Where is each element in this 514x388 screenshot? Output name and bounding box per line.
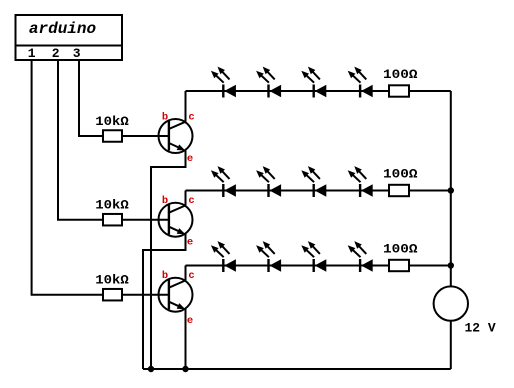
svg-text:10kΩ: 10kΩ [95, 198, 129, 213]
label 100Ω R4 [383, 67, 418, 82]
wire ground rail (bottom) [143, 368, 451, 370]
junction bus/row3 [448, 262, 454, 268]
svg-text:arduino: arduino [29, 20, 97, 38]
svg-text:b: b [162, 112, 168, 124]
label c Q3 [188, 270, 194, 282]
svg-text:10kΩ: 10kΩ [95, 273, 129, 288]
label 100Ω R6 [383, 242, 418, 257]
junction rail/Q1 emitter [148, 366, 154, 372]
wire Q2 collector to LED row 2 [185, 191, 187, 206]
LED D2 [256, 67, 281, 98]
svg-text:b: b [162, 195, 168, 207]
junction rail/Q3 emitter [182, 366, 188, 372]
pin 3 [73, 46, 81, 61]
LED D11 [301, 241, 326, 272]
wire R1 to Q1 base [122, 135, 169, 137]
resistor R6 100Ω (row 3) [389, 260, 409, 271]
voltage source V1 12V [434, 286, 468, 320]
LED D12 [348, 241, 373, 272]
label c Q1 [188, 112, 194, 124]
svg-text:b: b [162, 270, 168, 282]
wire pin 1 to R3 [32, 60, 103, 295]
svg-text:e: e [187, 315, 193, 327]
label b Q1 [162, 112, 168, 124]
wire LED row 1 [186, 90, 451, 92]
LED D9 [211, 241, 236, 272]
resistor R5 100Ω (row 2) [389, 185, 409, 196]
label c Q2 [188, 195, 194, 207]
svg-text:1: 1 [28, 46, 36, 61]
LED D3 [301, 67, 326, 98]
label e Q3 [187, 315, 193, 327]
LED D4 [348, 67, 373, 98]
LED D7 [301, 166, 326, 197]
pin 2 [52, 46, 60, 61]
svg-text:c: c [188, 195, 194, 207]
svg-text:10kΩ: 10kΩ [95, 114, 129, 129]
wire LED row 3 [186, 265, 451, 267]
label arduino [29, 20, 97, 38]
svg-text:2: 2 [52, 46, 60, 61]
svg-text:c: c [188, 112, 194, 124]
wire V1 to ground rail [450, 321, 452, 369]
svg-text:100Ω: 100Ω [383, 242, 418, 257]
svg-text:100Ω: 100Ω [383, 167, 418, 182]
resistor R1 10kΩ (base) [103, 130, 122, 142]
wire R2 to Q2 base [122, 219, 169, 221]
wire R3 to Q3 base [122, 294, 169, 296]
label b Q2 [162, 195, 168, 207]
label 10kΩ R1 [95, 114, 129, 129]
svg-text:100Ω: 100Ω [383, 67, 418, 82]
label 10kΩ R3 [95, 273, 129, 288]
wire +12V bus (right vertical) [450, 91, 452, 287]
wire Q2 emitter to ground rail [143, 234, 186, 369]
label b Q3 [162, 270, 168, 282]
wire pin 2 to R2 [58, 60, 103, 220]
label 12 V [465, 321, 496, 336]
resistor R4 100Ω (row 1) [389, 85, 409, 96]
svg-text:e: e [187, 153, 193, 165]
junction bus/row2 [448, 187, 454, 193]
wire Q3 emitter to ground rail [185, 309, 187, 369]
transistor Q3 (NPN) [159, 278, 193, 312]
label 10kΩ R2 [95, 198, 129, 213]
LED D6 [256, 166, 281, 197]
wire LED row 2 [186, 190, 451, 192]
wire pin 3 to R1 [79, 60, 103, 136]
LED D5 [211, 166, 236, 197]
wire Q1 emitter to ground rail [151, 150, 186, 369]
label e Q1 [187, 153, 193, 165]
pin 1 [28, 46, 36, 61]
wire Q3 collector to LED row 3 [185, 266, 187, 281]
svg-text:c: c [188, 270, 194, 282]
arduino module box [16, 15, 123, 60]
LED D1 [211, 67, 236, 98]
svg-text:3: 3 [73, 46, 81, 61]
wire Q1 collector to LED row 1 [185, 91, 187, 122]
svg-text:e: e [187, 237, 193, 249]
resistor R2 10kΩ (base) [103, 214, 122, 226]
LED D8 [348, 166, 373, 197]
label 100Ω R5 [383, 167, 418, 182]
resistor R3 10kΩ (base) [103, 289, 122, 301]
svg-text:12 V: 12 V [465, 321, 496, 336]
label e Q2 [187, 237, 193, 249]
transistor Q1 (NPN) [159, 119, 193, 153]
transistor Q2 (NPN) [159, 203, 193, 237]
LED D10 [256, 241, 281, 272]
